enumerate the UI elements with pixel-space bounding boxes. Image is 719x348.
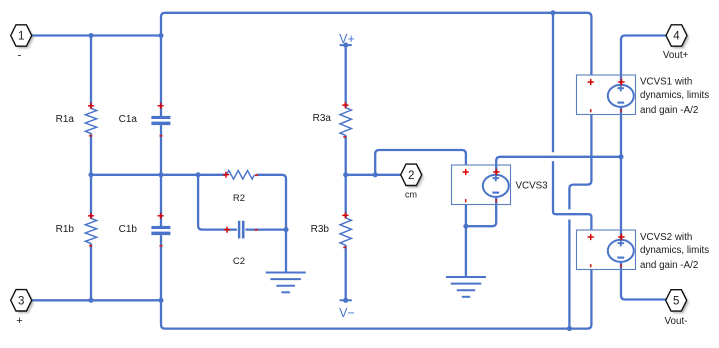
wire C2 branch — [198, 175, 237, 230]
svg-text:R3b: R3b — [311, 224, 330, 235]
junction port3/C1 — [158, 298, 163, 303]
svg-text:and gain -A/2: and gain -A/2 — [640, 105, 698, 116]
wire R3 column top — [345, 45, 347, 108]
wire VCVS3 input minus down — [465, 205, 467, 227]
junction bottom rail — [567, 326, 572, 331]
resistor R1b — [85, 213, 96, 247]
wire cm node to VCVS3 input — [375, 150, 466, 175]
svg-text:C1b: C1b — [119, 224, 138, 235]
svg-text:4: 4 — [673, 31, 680, 43]
resistor R3b — [340, 212, 351, 248]
svg-text:R2: R2 — [233, 193, 245, 204]
wire port1 to C1 column — [32, 34, 162, 36]
wire VCVS3 bottom join — [466, 196, 496, 226]
svg-text:R3a: R3a — [313, 113, 332, 124]
resistor R3a — [340, 102, 351, 138]
label VCVS2 — [640, 232, 709, 271]
op-amp VCVS2 — [577, 230, 636, 270]
wire VCVS1 minus jog upper — [569, 115, 591, 210]
port 5 — [666, 290, 689, 314]
port 2 cm — [401, 164, 424, 188]
junction output rail — [618, 154, 623, 159]
svg-text:C2: C2 — [233, 256, 245, 267]
wire R1 column middle segment — [90, 133, 92, 218]
wire VCVS2 output to port5 — [621, 261, 666, 299]
wire R2 right corner down to ground — [257, 175, 287, 273]
svg-text:1: 1 — [18, 31, 24, 43]
svg-text:VCVS1 with: VCVS1 with — [640, 77, 692, 88]
svg-text:VCVS3: VCVS3 — [516, 181, 549, 192]
junction node A — [196, 172, 201, 177]
port 1 — [11, 25, 34, 49]
wire R3 node to port cm — [346, 174, 401, 176]
wire VCVS1 output rail to VCVS2 — [620, 106, 622, 239]
svg-text:dynamics, limits: dynamics, limits — [640, 245, 709, 256]
wire VCVS1 minus jog lower — [568, 220, 570, 329]
wire C1 column top rail corner — [161, 13, 591, 116]
junction C1 mid — [158, 172, 163, 177]
wire port3 to C1 column — [32, 299, 162, 301]
svg-text:V−: V− — [339, 306, 355, 320]
svg-text:Vout-: Vout- — [665, 316, 688, 327]
junction R1 mid — [88, 172, 93, 177]
wire C1 column between caps — [160, 125, 162, 226]
wire R3 column bottom — [345, 245, 347, 300]
wire rail to VCVS2 input — [552, 13, 554, 153]
resistor R2 — [223, 171, 258, 180]
svg-text:dynamics, limits: dynamics, limits — [640, 90, 709, 101]
ground below VCVS3 — [446, 277, 486, 297]
capacitor C1a — [151, 103, 170, 137]
svg-text:R1b: R1b — [56, 224, 75, 235]
label VCVS1 — [640, 77, 709, 116]
svg-text:3: 3 — [18, 295, 24, 307]
node V+ — [339, 32, 355, 48]
svg-text:VCVS2 with: VCVS2 with — [640, 232, 692, 243]
svg-text:Vout+: Vout+ — [663, 50, 689, 61]
node V- — [339, 298, 355, 320]
junction VCVS3 minus — [463, 224, 468, 229]
svg-text:5: 5 — [673, 295, 679, 307]
junction C2 right — [283, 227, 288, 232]
wire R1 column bottom segment — [90, 243, 92, 300]
wire port4 to VCVS1 output — [621, 36, 667, 85]
wire VCVS3 output top — [496, 157, 621, 175]
ground below R2C2 — [266, 273, 306, 293]
junction top rail — [550, 10, 555, 15]
port 4 — [666, 25, 689, 49]
capacitor C1b — [151, 213, 170, 247]
svg-text:C1a: C1a — [119, 114, 138, 125]
junction R3 mid — [343, 172, 348, 177]
wire C1 column lower + bottom rail — [161, 235, 591, 329]
capacitor C2 — [224, 221, 258, 239]
wire middle node row — [91, 174, 226, 176]
op-amp VCVS3 — [452, 165, 511, 205]
wire R3 column middle — [345, 135, 347, 218]
resistor R1a — [85, 103, 96, 137]
svg-text:2: 2 — [408, 170, 414, 182]
port 3 — [11, 290, 34, 314]
junction cm branch — [373, 172, 378, 177]
op-amp VCVS1 — [577, 75, 636, 115]
svg-text:R1a: R1a — [56, 114, 75, 125]
wire VCVS3 node to ground — [465, 226, 467, 277]
junction port1/R1 — [88, 33, 93, 38]
svg-text:and gain -A/2: and gain -A/2 — [640, 260, 698, 271]
wire R1 column top segment — [90, 36, 92, 109]
junction port1/C1 — [158, 33, 163, 38]
wire C2 right to junction — [246, 228, 287, 230]
svg-text:cm: cm — [405, 190, 417, 200]
junction port3/R1 — [88, 298, 93, 303]
svg-text:+: + — [16, 315, 22, 327]
svg-text:-: - — [18, 50, 22, 62]
